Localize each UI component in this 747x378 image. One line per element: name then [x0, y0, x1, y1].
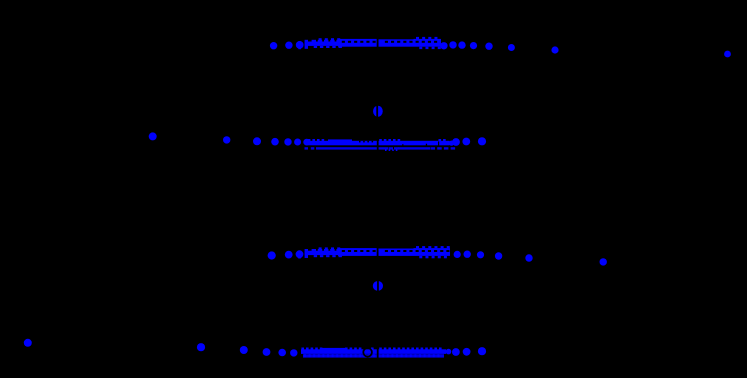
wire current dots, bottom rail left (circuit 2)	[197, 343, 298, 356]
wire current dot, right vertical branch top (circuit 1)	[551, 46, 558, 53]
wire current dots, bottom rail right (circuit 2)	[452, 347, 486, 356]
wire current dot, right branch (circuit 2)	[600, 258, 607, 265]
wire current dots, top rail right of R1 (circuit 1)	[440, 41, 515, 51]
battery B2 terminal dot on centre branch (circuit 2)	[373, 281, 383, 292]
wire current dot, far right branch (circuit 1)	[724, 51, 731, 58]
lamp L2 current band, bottom rail (circuit 2)	[301, 347, 451, 361]
battery B1 terminal dot on centre branch (circuit 1)	[373, 105, 383, 117]
resistor R1 current band, top rail (circuit 1)	[305, 37, 441, 49]
wire current dots, top rail left of R1 (circuit 1)	[270, 41, 304, 49]
wire current dots, bottom rail left (circuit 1)	[149, 132, 310, 145]
wire current dots, bottom rail far left (circuit 2)	[24, 339, 32, 347]
wire current dots, bottom rail right (circuit 1)	[452, 137, 486, 146]
lamp L1 current band, bottom rail (circuit 1)	[305, 138, 456, 152]
wire current dots, top rail right of R2 (circuit 2)	[454, 251, 533, 262]
resistor R2 current band, top rail (circuit 2)	[305, 246, 450, 258]
wire current dots, top rail left of R2 (circuit 2)	[268, 250, 304, 259]
